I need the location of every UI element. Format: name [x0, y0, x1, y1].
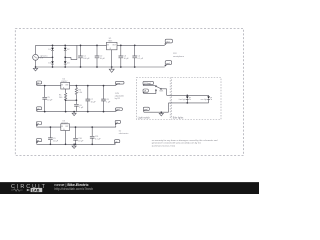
net flag row3 top-left [36, 122, 42, 127]
capacitor C6 under R2 [74, 104, 79, 111]
svg-text:front light: front light [179, 98, 186, 101]
svg-text:0.1 µF: 0.1 µF [137, 58, 143, 60]
svg-text:10 µF: 10 µF [91, 102, 97, 104]
net flag +5V row1 top-right [165, 39, 173, 45]
svg-text:gn: gn [115, 141, 117, 143]
node dots row3 [50, 126, 93, 145]
label C2 [100, 56, 106, 61]
IC U3 [61, 124, 70, 145]
label C11 [95, 136, 101, 141]
svg-text:OUT: OUT [65, 126, 68, 128]
svg-text:LM317: LM317 [61, 81, 68, 83]
svg-text:5v: 5v [37, 123, 39, 125]
svg-text:240: 240 [59, 97, 63, 99]
node dots lights [186, 94, 188, 103]
node dots row2 [44, 85, 104, 113]
svg-text:IN: IN [107, 44, 109, 46]
svg-text:LAB: LAB [32, 188, 40, 192]
logo arrow [27, 189, 30, 192]
svg-text:1 µF: 1 µF [106, 102, 111, 104]
svg-text:vreg: vreg [116, 82, 120, 85]
capacitor C5 [42, 86, 47, 112]
svg-text:SW1: SW1 [159, 90, 163, 92]
ground under source [33, 67, 37, 71]
net flag row2 top-right [115, 81, 124, 85]
label C3 [124, 56, 130, 61]
svg-text:100 µF: 100 µF [83, 58, 90, 60]
svg-text:IN: IN [61, 126, 63, 128]
node dot gnd wire [160, 111, 162, 113]
capacitor C4 [132, 45, 137, 67]
svg-text:(5v): (5v) [166, 41, 170, 43]
logo waveform [11, 189, 23, 192]
diode D1 [51, 48, 54, 51]
svg-text:D4: D4 [67, 63, 70, 65]
svg-text:(5 Vreg): (5 Vreg) [144, 82, 151, 85]
label R1 [59, 95, 63, 100]
wire switch common to lights rail [162, 89, 167, 96]
LED D5 front light [186, 95, 191, 103]
net flag gnd in switch box [143, 107, 149, 112]
svg-text:D2: D2 [67, 49, 70, 51]
wire source to left column mid [38, 56, 52, 58]
svg-text:rear light: rear light [201, 98, 208, 101]
diode D2 [64, 48, 67, 51]
net flag second throw [143, 89, 149, 93]
net flag row2 top-left [36, 81, 41, 85]
capacitor C3 [119, 45, 124, 67]
wire top rail row1 [36, 44, 165, 46]
diode D3 [51, 61, 54, 64]
capacitor C8 [101, 86, 106, 112]
net flag row3 top-right [115, 120, 121, 127]
svg-text:10 µF: 10 µF [124, 58, 130, 60]
wire lights top rail [167, 94, 209, 96]
label C1 [83, 56, 90, 61]
svg-text:OUT: OUT [65, 84, 68, 86]
IC U2 [61, 82, 70, 89]
wire top rail row3 [37, 126, 116, 128]
capacitor C2 [95, 45, 100, 67]
wire second throw [143, 91, 156, 94]
svg-text:1.5k: 1.5k [78, 92, 82, 94]
net flag row2 bottom-left [36, 107, 41, 112]
resistor R2 [75, 86, 77, 105]
svg-text:electronics: electronics [119, 132, 129, 135]
ground symbol switch box [159, 112, 163, 116]
label V1 dynamo [40, 55, 48, 59]
label U3 [61, 120, 69, 124]
svg-text:(commons license, free): (commons license, free) [152, 144, 176, 147]
LED D6 rear light [207, 95, 212, 103]
svg-text:10 µF: 10 µF [47, 100, 53, 102]
net flag GND row1 bottom-right [165, 61, 172, 67]
svg-text:gn: gn [37, 108, 39, 110]
footer bar [0, 182, 259, 194]
ground under U1 [109, 69, 114, 72]
svg-text:6 V: 6 V [40, 58, 44, 60]
svg-text:10 µF: 10 µF [53, 140, 59, 142]
label C9 [53, 138, 59, 143]
capacitor C9 [48, 127, 53, 144]
ground row3 [72, 144, 76, 148]
dashed box light switch [136, 78, 170, 120]
label C4 [137, 56, 143, 61]
wire lights bottom rail [169, 102, 209, 104]
wire bottom rail row3 [37, 143, 116, 145]
net flag 5vreg in switch box [143, 81, 154, 85]
node dots rails row1 [80, 45, 136, 68]
wire right column mid to top rail [65, 45, 77, 59]
regulator U1 [107, 42, 118, 69]
svg-text:10 µF: 10 µF [100, 58, 106, 60]
note row2 right [115, 93, 125, 100]
svg-text:3v: 3v [116, 122, 118, 124]
net flag row2 bottom-right [115, 108, 122, 112]
svg-text:gnd: gnd [166, 63, 169, 65]
capacitor C7 [86, 86, 91, 112]
svg-text:for: for [119, 130, 122, 132]
svg-text:0.1 µF: 0.1 µF [95, 139, 101, 141]
svg-text:12V: 12V [173, 53, 177, 55]
wire flag to switch [143, 85, 155, 87]
ground row2 [72, 112, 76, 116]
switch SW1 [155, 86, 161, 91]
label U1 [108, 38, 113, 43]
label C5 [47, 97, 53, 102]
label C10 [78, 138, 84, 143]
note smartphone [173, 53, 185, 58]
svg-text:A: A [63, 86, 64, 89]
wire gnd flag to lights return [144, 103, 169, 112]
svg-text:LD1117: LD1117 [61, 123, 69, 125]
svg-text:by R1: by R1 [115, 98, 121, 100]
svg-text:gn: gn [37, 140, 39, 142]
svg-text:adjustable: adjustable [115, 95, 125, 98]
wire bottom rail row2 [37, 111, 116, 113]
svg-text:Light switch: Light switch [138, 116, 151, 119]
svg-text:5v: 5v [37, 83, 39, 85]
wire left diode column [52, 45, 54, 67]
svg-text:IN: IN [61, 84, 63, 86]
svg-text:smartphone: smartphone [173, 55, 185, 58]
net flag row3 bottom-left [36, 139, 42, 145]
svg-text:generated / created with www.c: generated / created with www.circuitlab.… [152, 142, 202, 145]
svg-text:gnd: gnd [116, 109, 119, 111]
label C7 [91, 99, 97, 104]
svg-text:http://circuitlab.com/c7txrcb: http://circuitlab.com/c7txrcb [54, 187, 93, 191]
svg-text:as warranty for any harm or da: as warranty for any harm or damages caus… [152, 139, 218, 142]
label R2 [78, 90, 82, 95]
resistor R1 [65, 89, 67, 112]
svg-text:Bike lights: Bike lights [173, 116, 184, 119]
node dots bridge [35, 45, 66, 68]
wire top rail row2 [37, 85, 116, 87]
diode D4 [64, 61, 67, 64]
schematic sheet dashed border [15, 29, 243, 156]
wire bottom rail row1 [36, 66, 165, 68]
svg-text:1 µF: 1 µF [79, 107, 84, 109]
net flag row3 bottom-right [114, 140, 120, 144]
label C8 [106, 99, 111, 104]
capacitor C10 [73, 127, 78, 144]
wire right diode column [64, 45, 66, 67]
wire R1 to R2 node [66, 99, 77, 101]
svg-text:gnd: gnd [144, 109, 147, 111]
capacitor C11 [90, 127, 95, 144]
capacitor C1 [78, 45, 83, 67]
dashed box bike lights [172, 78, 221, 120]
svg-text:10 µF: 10 µF [78, 141, 84, 143]
logo LAB box [31, 188, 43, 192]
disclaimer text [152, 139, 218, 147]
svg-text:OUT: OUT [112, 44, 115, 46]
label C6 [79, 105, 84, 109]
AC source V1 [33, 45, 39, 67]
note row3 right [119, 130, 129, 135]
label U2 [61, 78, 68, 82]
